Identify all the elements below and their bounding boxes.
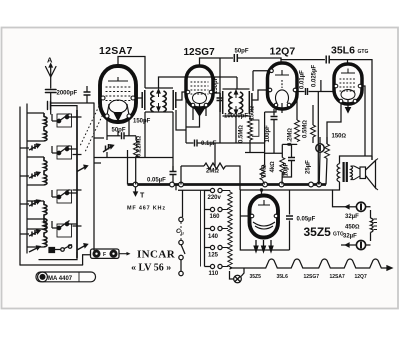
svg-text:12SG7: 12SG7 xyxy=(304,274,320,280)
svg-text:160: 160 xyxy=(210,214,221,220)
svg-text:u: u xyxy=(181,231,184,236)
svg-text:« LV 56 »: « LV 56 » xyxy=(131,263,171,274)
svg-text:150Ω: 150Ω xyxy=(332,134,347,140)
svg-text:12Q7: 12Q7 xyxy=(355,274,367,280)
svg-text:35L6: 35L6 xyxy=(277,274,289,280)
svg-text:0.22MΩ: 0.22MΩ xyxy=(137,135,143,157)
svg-text:10µF: 10µF xyxy=(284,162,290,176)
svg-text:0.1µF: 0.1µF xyxy=(201,141,217,147)
svg-text:32µF: 32µF xyxy=(343,234,357,240)
svg-text:12SA7: 12SA7 xyxy=(330,274,346,280)
svg-text:35Z5: 35Z5 xyxy=(304,225,332,239)
svg-text:50pF: 50pF xyxy=(112,128,126,134)
svg-text:2000pF: 2000pF xyxy=(57,91,78,97)
svg-text:35L6: 35L6 xyxy=(331,45,355,57)
svg-text:0.01µF: 0.01µF xyxy=(300,70,306,89)
svg-text:450Ω: 450Ω xyxy=(345,225,360,231)
svg-text:12Q7: 12Q7 xyxy=(270,46,296,58)
svg-text:125: 125 xyxy=(208,253,219,259)
svg-text:140: 140 xyxy=(208,234,219,240)
svg-text:50pF: 50pF xyxy=(235,49,249,55)
svg-text:GTG: GTG xyxy=(358,49,369,55)
svg-text:150pF: 150pF xyxy=(133,119,151,125)
svg-text:0.05µF: 0.05µF xyxy=(297,217,316,223)
svg-text:32µF: 32µF xyxy=(345,214,359,220)
svg-text:0.5MΩ: 0.5MΩ xyxy=(303,120,309,138)
svg-text:110: 110 xyxy=(209,271,219,277)
svg-text:A: A xyxy=(47,56,53,65)
svg-text:MA 4407: MA 4407 xyxy=(48,276,73,282)
svg-text:0.05µF: 0.05µF xyxy=(147,178,166,184)
svg-text:100pF: 100pF xyxy=(265,125,271,143)
svg-text:INCAR: INCAR xyxy=(137,249,176,261)
svg-text:150Ω: 150Ω xyxy=(250,105,256,120)
svg-text:25µF: 25µF xyxy=(306,160,312,174)
svg-text:2MΩ: 2MΩ xyxy=(206,169,219,175)
svg-text:12SG7: 12SG7 xyxy=(184,47,216,58)
svg-text:T: T xyxy=(140,193,145,200)
svg-text:0.5MΩ: 0.5MΩ xyxy=(239,125,245,143)
svg-text:0.2MΩ: 0.2MΩ xyxy=(288,128,294,146)
svg-text:4kΩ: 4kΩ xyxy=(270,161,276,173)
svg-text:MF 467 KHz: MF 467 KHz xyxy=(127,206,166,212)
svg-text:12SA7: 12SA7 xyxy=(99,45,133,57)
svg-text:10000pF: 10000pF xyxy=(224,114,248,120)
svg-text:35Z5: 35Z5 xyxy=(250,274,262,280)
svg-text:F: F xyxy=(103,252,106,258)
svg-text:150pF: 150pF xyxy=(213,76,219,94)
svg-text:0.025µF: 0.025µF xyxy=(312,65,318,87)
svg-text:220v: 220v xyxy=(208,195,222,201)
svg-text:1MΩ: 1MΩ xyxy=(262,164,268,177)
